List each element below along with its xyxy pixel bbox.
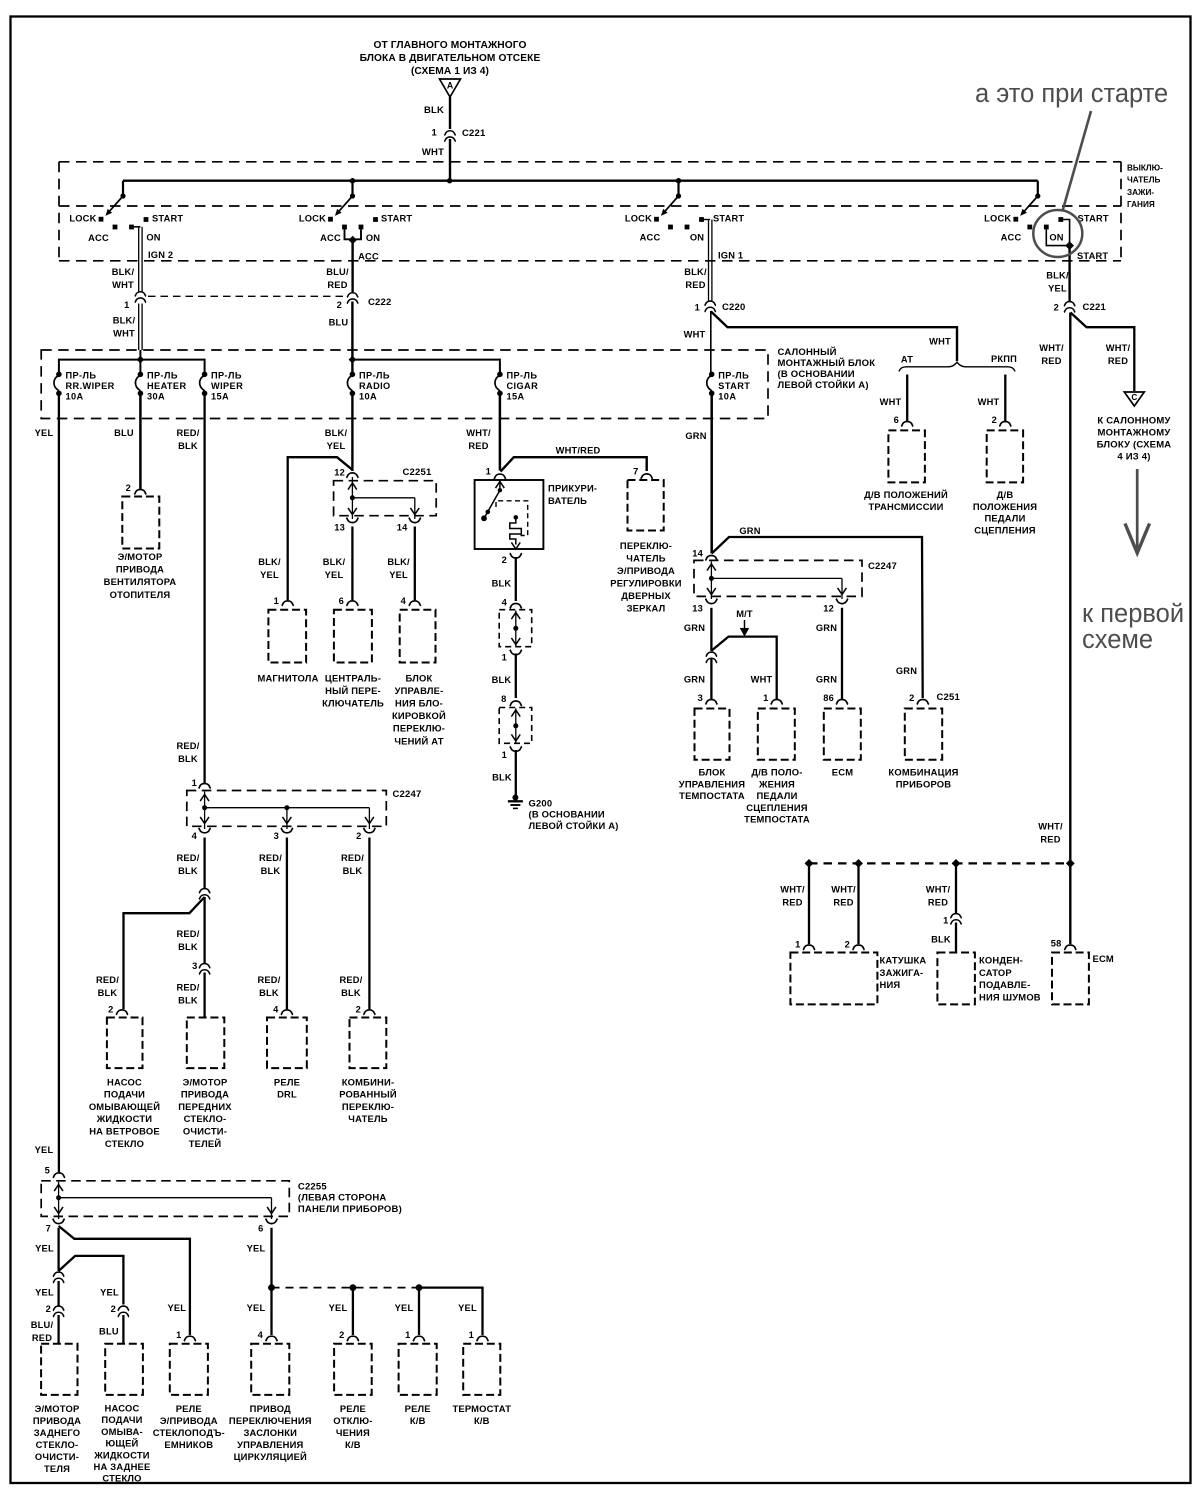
svg-text:ТЕРМОСТАТ: ТЕРМОСТАТ — [452, 1403, 511, 1414]
svg-text:BLK/: BLK/ — [323, 557, 346, 567]
svg-text:WHT: WHT — [978, 397, 1000, 407]
svg-text:КОМБИНАЦИЯ: КОМБИНАЦИЯ — [888, 767, 958, 778]
cigar lighter heating element — [514, 515, 519, 520]
connector C2255 pin 6 — [266, 1219, 278, 1224]
switch G2 START contact — [373, 217, 378, 222]
bus junction node group3 — [676, 178, 681, 183]
svg-text:BLK: BLK — [341, 988, 361, 998]
connector C251 pin 2 — [917, 699, 929, 704]
switch G1 LOCK contact — [99, 217, 104, 222]
svg-text:C251: C251 — [937, 692, 961, 703]
svg-text:WHT: WHT — [880, 397, 902, 407]
wire WHT to ignition switch bus — [449, 139, 451, 181]
svg-text:RED/: RED/ — [176, 741, 199, 751]
svg-text:YEL: YEL — [35, 1145, 54, 1155]
svg-text:1: 1 — [795, 940, 800, 950]
svg-text:RED: RED — [928, 898, 948, 908]
connector C2247 pin 2 — [363, 828, 375, 833]
connector 4 junction — [510, 603, 522, 608]
ignition coil box — [790, 953, 877, 1005]
clutch pedal position switch box — [987, 430, 1023, 482]
svg-text:СТЕКЛО-: СТЕКЛО- — [184, 1113, 227, 1124]
svg-text:YEL: YEL — [458, 1303, 477, 1313]
svg-text:BLK: BLK — [492, 772, 512, 782]
svg-text:GRN: GRN — [816, 623, 837, 633]
svg-text:1: 1 — [432, 128, 438, 139]
connector 1 junction — [510, 650, 522, 655]
svg-text:YEL: YEL — [325, 570, 344, 580]
annotation circle around ON — [1033, 210, 1082, 257]
wire BLU into rear washer pump — [122, 1315, 124, 1344]
central switch box — [334, 610, 372, 663]
svg-text:(ЛЕВАЯ СТОРОНА: (ЛЕВАЯ СТОРОНА — [298, 1193, 387, 1204]
svg-text:1: 1 — [405, 1330, 410, 1340]
svg-text:14: 14 — [692, 549, 703, 559]
connector pin 4 recirc actuator — [266, 1336, 278, 1341]
wire WHT/RED branch to connector C — [1071, 313, 1135, 392]
svg-text:Э/МОТОР: Э/МОТОР — [35, 1403, 80, 1414]
connector C2251 pin 14 — [409, 518, 421, 523]
dashed distribution wire YEL — [272, 1287, 420, 1289]
svg-text:3: 3 — [698, 693, 703, 703]
svg-text:YEL: YEL — [35, 428, 54, 438]
connector C2251 pin 13 — [346, 518, 358, 523]
wire YEL to AC relay — [418, 1290, 420, 1335]
svg-text:GRN: GRN — [684, 674, 705, 684]
svg-text:GRN: GRN — [684, 623, 705, 633]
svg-text:ПЕДАЛИ: ПЕДАЛИ — [756, 790, 797, 801]
svg-text:10A: 10A — [718, 392, 736, 402]
cigar lighter switch contact — [499, 480, 501, 488]
noise suppression condenser box — [937, 953, 975, 1005]
connector pin 2 cigar lighter — [510, 553, 522, 558]
wire YEL pin7 main down — [57, 1228, 59, 1271]
svg-text:1: 1 — [192, 778, 197, 788]
connector pin 2 AC cutout relay — [347, 1336, 359, 1341]
svg-text:ECM: ECM — [832, 767, 853, 778]
connector block C2247 right (dashed) — [694, 560, 862, 596]
washer pump box — [107, 1018, 143, 1069]
brace AT/RKPP — [899, 362, 1015, 371]
connector pin 2 ignition coil — [853, 945, 865, 950]
wire WHT branch C220 to AT/RKPP — [711, 312, 957, 362]
switch G2 LOCK contact — [328, 217, 333, 222]
connector block C2247 left (dashed) — [187, 791, 386, 827]
svg-text:ПОДАЧИ: ПОДАЧИ — [104, 1089, 145, 1100]
connector C2247 pin 14 — [705, 555, 717, 560]
svg-text:RED/: RED/ — [259, 853, 282, 863]
connector C2251 pin 12 — [346, 473, 358, 478]
fuse WIPER 15A — [202, 372, 208, 378]
switch G3 feed drop — [677, 181, 679, 196]
svg-text:КОМБИНИ-: КОМБИНИ- — [342, 1076, 395, 1087]
svg-text:УПРАВЛЕНИЯ: УПРАВЛЕНИЯ — [679, 778, 745, 789]
junction node AC relay — [416, 1284, 423, 1291]
svg-text:START: START — [152, 214, 183, 224]
svg-text:RADIO: RADIO — [359, 381, 391, 391]
svg-text:(В ОСНОВАНИИ: (В ОСНОВАНИИ — [529, 809, 605, 820]
junction diamond 3 — [952, 859, 961, 868]
svg-text:БЛОК: БЛОК — [699, 767, 726, 778]
svg-text:BLK: BLK — [178, 942, 198, 952]
connector 2 rear wiper motor wire — [53, 1306, 64, 1311]
svg-text:C2247: C2247 — [868, 561, 897, 572]
svg-text:2: 2 — [845, 940, 850, 950]
svg-text:1: 1 — [274, 596, 279, 606]
svg-text:СЦЕПЛЕНИЯ: СЦЕПЛЕНИЯ — [974, 524, 1036, 535]
svg-text:RED: RED — [833, 898, 853, 908]
connector inline rear wiper wire — [53, 1272, 64, 1277]
svg-text:ЗАЖИ-: ЗАЖИ- — [1127, 188, 1154, 197]
svg-text:УПРАВЛЕ-: УПРАВЛЕ- — [395, 685, 444, 696]
svg-text:ОМЫВА-: ОМЫВА- — [101, 1426, 143, 1437]
svg-text:RED/: RED/ — [96, 975, 119, 985]
switch G4 ON contact — [1044, 225, 1049, 230]
switch G2 feed drop — [351, 181, 353, 196]
svg-text:4: 4 — [258, 1330, 264, 1340]
second junction block (dashed) — [499, 708, 532, 744]
svg-text:ПАНЕЛИ ПРИБОРОВ): ПАНЕЛИ ПРИБОРОВ) — [298, 1204, 402, 1215]
connector 1 on IGN2 wire — [135, 292, 146, 297]
wire YEL pin6 down — [270, 1228, 272, 1285]
svg-text:RED/: RED/ — [176, 982, 199, 992]
svg-text:10A: 10A — [359, 392, 377, 402]
connector C2247 pin 12 — [836, 599, 848, 604]
svg-text:RED: RED — [782, 898, 802, 908]
cigar lighter box — [475, 480, 544, 549]
svg-text:HEATER: HEATER — [147, 381, 187, 391]
svg-text:WHT/: WHT/ — [831, 884, 856, 894]
svg-text:ПРИВОДА: ПРИВОДА — [116, 564, 164, 575]
wire BLK/YEL pin14 to shift lock unit — [414, 527, 416, 601]
combination switch box — [350, 1018, 387, 1069]
connector pin 86 ECM — [836, 699, 848, 704]
svg-text:ВАТЕЛЬ: ВАТЕЛЬ — [548, 495, 587, 506]
connector pin 58 ECM — [1064, 945, 1076, 950]
svg-text:BLK: BLK — [178, 441, 198, 451]
switch G1 IGN2 output wire (double) — [132, 226, 141, 228]
svg-text:14: 14 — [397, 523, 408, 533]
AC cutout relay box — [334, 1344, 372, 1395]
svg-text:К/В: К/В — [474, 1415, 490, 1426]
svg-text:4 ИЗ 4): 4 ИЗ 4) — [1117, 451, 1150, 462]
svg-text:YEL: YEL — [35, 1244, 54, 1254]
svg-text:ЗЕРКАЛ: ЗЕРКАЛ — [627, 603, 666, 614]
svg-text:СТЕКЛО: СТЕКЛО — [105, 1138, 144, 1149]
bus junction node at C221 feed — [447, 178, 452, 183]
recirculation actuator box — [251, 1344, 289, 1395]
svg-text:DRL: DRL — [277, 1089, 297, 1100]
connector pin 4 DRL relay — [281, 1010, 293, 1015]
svg-text:ЛЕВОЙ СТОЙКИ А): ЛЕВОЙ СТОЙКИ А) — [778, 379, 869, 391]
svg-text:GRN: GRN — [816, 674, 837, 684]
svg-text:GRN: GRN — [896, 666, 917, 676]
svg-text:ТЕЛЕЙ: ТЕЛЕЙ — [189, 1138, 222, 1149]
svg-text:САТОР: САТОР — [979, 967, 1012, 978]
svg-text:A: A — [447, 81, 454, 91]
svg-text:Д/В ПОЛОЖЕНИЙ: Д/В ПОЛОЖЕНИЙ — [864, 489, 948, 500]
svg-text:15A: 15A — [507, 392, 525, 402]
svg-text:1: 1 — [176, 1330, 181, 1340]
heater blower motor box — [122, 497, 159, 549]
svg-text:ПР-ЛЬ: ПР-ЛЬ — [359, 371, 390, 381]
svg-text:BLK: BLK — [178, 754, 198, 764]
svg-text:КИРОВКОЙ: КИРОВКОЙ — [392, 710, 446, 721]
switch G1 ACC contact — [113, 225, 118, 230]
svg-text:C221: C221 — [1083, 302, 1107, 313]
svg-text:2: 2 — [909, 693, 914, 703]
svg-text:RED: RED — [685, 280, 705, 290]
svg-text:ACC: ACC — [358, 251, 379, 261]
connector pin 4 shift lock unit — [409, 601, 421, 606]
svg-text:BLK: BLK — [931, 935, 951, 945]
connector pin 1 thermostat — [477, 1336, 489, 1341]
svg-text:WHT: WHT — [684, 330, 706, 340]
wire WHT/RED to coil pin 2 — [857, 863, 859, 944]
svg-text:НАСОС: НАСОС — [107, 1076, 142, 1087]
svg-text:WHT/: WHT/ — [926, 884, 951, 894]
svg-text:2: 2 — [111, 1304, 116, 1314]
svg-text:РЕЛЕ: РЕЛЕ — [274, 1076, 300, 1087]
svg-text:WHT/: WHT/ — [1106, 343, 1131, 353]
svg-text:1: 1 — [469, 1330, 474, 1340]
svg-text:CIGAR: CIGAR — [507, 381, 539, 391]
svg-text:БЛОКА В ДВИГАТЕЛЬНОМ ОТСЕКЕ: БЛОКА В ДВИГАТЕЛЬНОМ ОТСЕКЕ — [360, 53, 541, 64]
svg-text:1: 1 — [695, 303, 700, 313]
svg-text:схеме: схеме — [1082, 626, 1153, 654]
svg-text:RED: RED — [1041, 356, 1061, 366]
svg-text:BLK: BLK — [492, 675, 512, 685]
connector C221 pin 2 — [1064, 302, 1075, 307]
wire GRN pin12 to ECM — [841, 608, 843, 699]
svg-text:BLK: BLK — [178, 866, 198, 876]
svg-text:BLK/: BLK/ — [112, 267, 135, 277]
svg-text:ПРИБОРОВ: ПРИБОРОВ — [896, 778, 952, 789]
switch G4 feed drop — [1037, 181, 1039, 196]
fuse CIGAR 15A — [497, 372, 503, 378]
svg-text:7: 7 — [46, 1224, 51, 1234]
svg-text:БЛОК: БЛОК — [406, 672, 433, 683]
svg-text:13: 13 — [692, 604, 703, 614]
wiper motor box — [187, 1018, 225, 1069]
svg-text:1: 1 — [124, 300, 129, 310]
wire BLU/RED into rear wiper motor — [57, 1315, 59, 1344]
svg-text:RED/: RED/ — [341, 853, 364, 863]
wire YEL to thermostat — [419, 1288, 483, 1335]
connector pin 1 cigar lighter — [494, 474, 506, 479]
svg-text:ПР-ЛЬ: ПР-ЛЬ — [66, 371, 97, 381]
svg-text:Э/ПРИВОДА: Э/ПРИВОДА — [617, 565, 675, 576]
svg-text:LOCK: LOCK — [984, 214, 1011, 224]
wire RED/BLK pin2 to combination switch — [368, 838, 370, 1010]
junction node AC cutout — [350, 1284, 357, 1291]
svg-text:ЕМНИКОВ: ЕМНИКОВ — [164, 1439, 213, 1450]
svg-text:WHT/: WHT/ — [1038, 821, 1063, 831]
svg-text:G200: G200 — [529, 797, 553, 808]
wire RED/BLK pin4 down — [203, 838, 205, 889]
svg-text:BLU: BLU — [114, 428, 134, 438]
svg-text:ОТКЛЮ-: ОТКЛЮ- — [333, 1415, 372, 1426]
wire BLK to ground — [515, 750, 517, 795]
svg-text:1: 1 — [502, 653, 507, 663]
connector C2255 pin 5 — [53, 1173, 65, 1178]
svg-text:МАГНИТОЛА: МАГНИТОЛА — [257, 672, 318, 683]
svg-text:BLK: BLK — [343, 866, 363, 876]
wire YEL branch to window relay — [59, 1226, 190, 1335]
fuse RR.WIPER 10A — [56, 372, 62, 378]
svg-text:ПР-ЛЬ: ПР-ЛЬ — [147, 371, 178, 381]
fusebox internal bus 1 — [59, 360, 205, 372]
rear washer pump box — [105, 1344, 143, 1395]
svg-text:ЛЕВОЙ СТОЙКИ А): ЛЕВОЙ СТОЙКИ А) — [529, 820, 619, 831]
svg-text:LOCK: LOCK — [69, 214, 96, 224]
connector pin 1 window relay — [184, 1336, 196, 1341]
svg-text:САЛОННЫЙ: САЛОННЫЙ — [778, 346, 837, 358]
svg-text:ПОЛОЖЕНИЯ: ПОЛОЖЕНИЯ — [973, 501, 1037, 512]
svg-text:СТЕКЛО: СТЕКЛО — [102, 1473, 141, 1484]
connector pin 6 central switch — [346, 601, 358, 606]
svg-text:RED: RED — [1040, 835, 1060, 845]
radio box — [268, 610, 306, 663]
svg-text:1: 1 — [486, 467, 491, 477]
ECM box middle — [824, 709, 861, 760]
svg-text:ON: ON — [366, 233, 380, 243]
svg-text:1: 1 — [763, 693, 768, 703]
svg-text:3: 3 — [192, 961, 197, 971]
C2247 left internals — [204, 792, 206, 830]
fuse RADIO 10A — [350, 372, 356, 378]
svg-text:YEL: YEL — [389, 570, 408, 580]
svg-text:ПОДАЧИ: ПОДАЧИ — [101, 1414, 142, 1425]
svg-text:НАСОС: НАСОС — [105, 1403, 140, 1414]
connector C2255 pin 7 — [53, 1219, 65, 1224]
svg-text:5: 5 — [45, 1166, 50, 1176]
fuse HEATER 30A — [138, 372, 144, 378]
svg-text:ОТОПИТЕЛЯ: ОТОПИТЕЛЯ — [110, 589, 171, 600]
svg-text:IGN 2: IGN 2 — [148, 250, 173, 260]
power window relay box — [170, 1344, 208, 1395]
wire RED/BLK from WIPER fuse to C2247 — [203, 393, 205, 783]
switch G1 START contact — [144, 217, 149, 222]
svg-text:ПОДАВЛЕ-: ПОДАВЛЕ- — [979, 979, 1030, 990]
svg-text:ACC: ACC — [320, 233, 341, 243]
cabin fuse box (dashed) — [41, 350, 768, 419]
svg-text:YEL: YEL — [260, 570, 279, 580]
svg-text:BLK: BLK — [98, 988, 118, 998]
connector pin 2 combination switch — [363, 1010, 375, 1015]
svg-text:ЧЕНИЙ АТ: ЧЕНИЙ АТ — [394, 735, 443, 746]
svg-text:C221: C221 — [462, 128, 486, 139]
svg-text:BLU/: BLU/ — [326, 267, 349, 277]
svg-text:86: 86 — [823, 693, 834, 703]
fusebox internal bus 2 — [352, 360, 500, 372]
svg-text:WHT/: WHT/ — [780, 884, 805, 894]
switch G4 ON-START linkage — [1046, 229, 1068, 245]
svg-text:ВЫКЛЮ-: ВЫКЛЮ- — [1127, 164, 1163, 173]
connector C2247 pin 4 — [199, 828, 211, 833]
dashed link line connector1-C222 — [148, 295, 345, 297]
svg-text:УПРАВЛЕНИЯ: УПРАВЛЕНИЯ — [237, 1439, 303, 1450]
wire WHT/RED to noise condenser — [955, 863, 957, 913]
svg-text:ACC: ACC — [640, 233, 661, 243]
svg-text:YEL: YEL — [35, 1288, 54, 1298]
svg-text:YEL: YEL — [100, 1288, 119, 1298]
svg-text:BLU: BLU — [329, 317, 349, 327]
svg-text:СЦЕПЛЕНИЯ: СЦЕПЛЕНИЯ — [746, 802, 808, 813]
svg-text:RED/: RED/ — [339, 975, 362, 985]
svg-text:2: 2 — [46, 1304, 51, 1314]
wire BLK/YEL from RADIO fuse — [351, 393, 353, 471]
svg-text:BLK: BLK — [492, 578, 512, 588]
svg-text:ЧАТЕЛЬ: ЧАТЕЛЬ — [348, 1113, 387, 1124]
junction diamond 2 — [854, 859, 863, 868]
svg-text:BLK: BLK — [261, 866, 281, 876]
svg-text:YEL: YEL — [395, 1303, 414, 1313]
connector block C2251 (dashed) — [334, 481, 437, 516]
svg-text:К САЛОННОМУ: К САЛОННОМУ — [1097, 415, 1170, 426]
svg-text:ECM: ECM — [1093, 953, 1114, 964]
svg-text:C: C — [1131, 393, 1137, 402]
bus junction node group2 — [350, 178, 355, 183]
svg-text:3: 3 — [274, 831, 279, 841]
switch G1 ON contact — [129, 225, 134, 230]
wire WHT to clutch pedal switch — [1004, 375, 1006, 422]
svg-text:РКПП: РКПП — [991, 354, 1017, 364]
svg-text:ТЕМПОСТАТА: ТЕМПОСТАТА — [679, 790, 745, 801]
svg-text:GRN: GRN — [739, 526, 760, 536]
svg-text:СТЕКЛОПОДЪ-: СТЕКЛОПОДЪ- — [153, 1427, 225, 1438]
svg-text:8: 8 — [501, 694, 506, 704]
ground G200 — [512, 795, 518, 801]
svg-text:к первой: к первой — [1082, 600, 1184, 628]
svg-text:МОНТАЖНЫЙ БЛОК: МОНТАЖНЫЙ БЛОК — [778, 357, 876, 369]
switch G3 START output wire (double) — [702, 219, 711, 221]
svg-text:(СХЕМА 1 ИЗ 4): (СХЕМА 1 ИЗ 4) — [411, 66, 489, 77]
svg-text:Д/В ПОЛО-: Д/В ПОЛО- — [751, 767, 802, 778]
svg-text:6: 6 — [894, 415, 899, 425]
svg-text:НА ЗАДНЕЕ: НА ЗАДНЕЕ — [94, 1461, 151, 1472]
svg-text:START: START — [718, 381, 750, 391]
wire RED/BLK main to wiper motor — [203, 897, 205, 963]
AC relay box — [399, 1344, 437, 1395]
svg-text:START: START — [1078, 214, 1109, 224]
svg-text:58: 58 — [1051, 939, 1062, 949]
connector C220 pin 1 — [705, 301, 716, 306]
wire BLU C222 to RADIO fuse — [351, 302, 353, 375]
svg-text:ТЕМПОСТАТА: ТЕМПОСТАТА — [744, 814, 810, 825]
svg-text:BLK/: BLK/ — [325, 428, 348, 438]
svg-text:LOCK: LOCK — [625, 214, 652, 224]
connector symbol A (triangle) — [440, 79, 461, 97]
svg-text:2: 2 — [339, 1330, 344, 1340]
svg-text:C2247: C2247 — [393, 789, 422, 800]
instrument cluster box — [905, 709, 942, 760]
connector pin 2 washer pump — [116, 1010, 128, 1015]
wire WHT/RED long line to ECM — [1069, 313, 1071, 945]
svg-text:ЮЩЕЙ: ЮЩЕЙ — [105, 1438, 138, 1449]
DRL relay box — [267, 1018, 307, 1069]
connector C2247 pin 3 — [281, 828, 293, 833]
switch G3 LOCK contact — [654, 217, 659, 222]
svg-text:ТРАНСМИССИИ: ТРАНСМИССИИ — [868, 501, 943, 512]
svg-text:WHT: WHT — [929, 337, 951, 347]
svg-text:ПЕРЕДНИХ: ПЕРЕДНИХ — [178, 1101, 232, 1112]
svg-text:ПРИВОДА: ПРИВОДА — [181, 1089, 229, 1100]
wire WHT C220 down to START fuse — [710, 311, 712, 374]
annotation pointer curve — [1063, 111, 1092, 211]
wire GRN from START fuse — [710, 393, 713, 553]
ECM box right — [1052, 953, 1089, 1005]
